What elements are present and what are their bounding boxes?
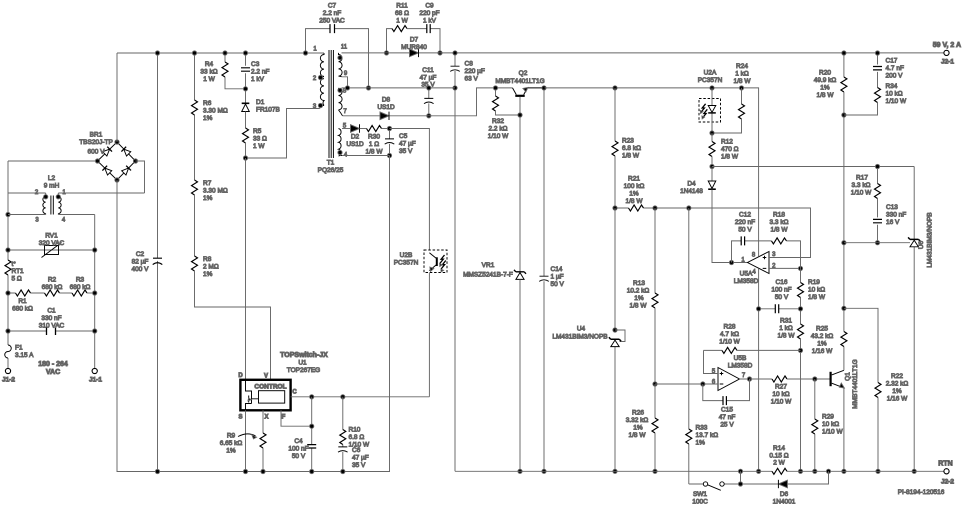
terminal J1-2 <box>5 368 10 373</box>
diode D2 <box>342 128 351 130</box>
svg-text:1 kΩ: 1 kΩ <box>735 71 749 78</box>
svg-text:470 Ω: 470 Ω <box>721 146 739 153</box>
svg-text:U4: U4 <box>577 326 586 333</box>
svg-text:50 V: 50 V <box>775 294 789 301</box>
svg-text:D2: D2 <box>351 134 360 141</box>
svg-text:R1: R1 <box>18 298 27 305</box>
bridge rectifier BR1 <box>98 142 136 180</box>
resistor R1 <box>8 292 45 294</box>
svg-text:Q2: Q2 <box>519 70 528 77</box>
svg-text:3.30 MΩ: 3.30 MΩ <box>203 188 228 195</box>
svg-text:R4: R4 <box>205 61 214 68</box>
svg-text:LM431BIM3/NOPB: LM431BIM3/NOPB <box>552 334 607 341</box>
op-amp U5B <box>718 368 740 391</box>
wire secondary RTN rail <box>455 470 944 472</box>
svg-text:R5: R5 <box>253 128 262 135</box>
svg-text:D6: D6 <box>780 491 789 498</box>
svg-text:C15: C15 <box>721 407 733 414</box>
svg-text:43.2 kΩ: 43.2 kΩ <box>811 333 834 340</box>
svg-text:1 W: 1 W <box>253 143 265 150</box>
wire bridge DC+ to top rail <box>116 53 118 142</box>
svg-text:400 V: 400 V <box>132 266 150 273</box>
resistor R10 <box>342 397 344 430</box>
svg-text:X: X <box>264 415 268 421</box>
switch SW1 <box>689 483 741 485</box>
wire bias to opto collector <box>390 129 430 251</box>
svg-text:R25: R25 <box>816 326 828 333</box>
wire SW1/D6 bypass <box>741 471 829 484</box>
svg-text:1%: 1% <box>203 271 213 278</box>
diode D6 <box>778 480 787 488</box>
svg-text:1 kV: 1 kV <box>251 76 265 83</box>
svg-text:C5: C5 <box>399 133 408 140</box>
svg-text:C6: C6 <box>352 447 361 454</box>
wire drain line D <box>245 158 247 380</box>
svg-text:R23: R23 <box>622 138 634 145</box>
resistor R33 <box>688 208 690 429</box>
svg-text:R11: R11 <box>396 3 408 10</box>
svg-text:33 Ω: 33 Ω <box>253 136 267 143</box>
capacitor C1 <box>8 330 95 332</box>
resistor R23 <box>614 88 616 141</box>
svg-text:T1: T1 <box>327 160 335 167</box>
svg-text:D: D <box>238 373 243 379</box>
svg-text:C17: C17 <box>886 58 898 65</box>
capacitor C12 <box>732 241 772 263</box>
svg-text:1 kΩ: 1 kΩ <box>779 325 793 332</box>
svg-text:R21: R21 <box>628 176 640 183</box>
svg-text:R22: R22 <box>891 373 903 380</box>
svg-text:1/10 W: 1/10 W <box>886 98 907 105</box>
svg-text:1%: 1% <box>629 191 639 198</box>
svg-text:1%: 1% <box>696 440 706 447</box>
svg-text:3.3 kΩ: 3.3 kΩ <box>770 219 789 226</box>
diode D8 <box>380 112 389 120</box>
resistor R24 <box>741 88 743 104</box>
svg-text:1/8 W: 1/8 W <box>630 303 648 310</box>
svg-text:RT1: RT1 <box>12 268 25 275</box>
diode D4 <box>711 167 713 181</box>
svg-text:U5A: U5A <box>740 271 753 278</box>
svg-text:TOP267EG: TOP267EG <box>287 367 320 374</box>
capacitor C16 <box>759 308 801 310</box>
svg-text:R18: R18 <box>773 212 785 219</box>
svg-text:11: 11 <box>341 45 348 51</box>
svg-text:10 kΩ: 10 kΩ <box>822 421 839 428</box>
svg-text:R20: R20 <box>819 70 831 77</box>
wire C pin line <box>291 396 430 398</box>
resistor R13 <box>654 208 656 293</box>
svg-text:220 pF: 220 pF <box>419 10 439 17</box>
svg-text:2.2 kΩ: 2.2 kΩ <box>489 126 508 133</box>
varistor RV1 <box>8 249 95 251</box>
svg-text:5 Ω: 5 Ω <box>12 276 22 283</box>
svg-text:250 VAC: 250 VAC <box>319 18 345 25</box>
svg-text:R12: R12 <box>721 139 733 146</box>
resistor R8 <box>192 256 198 271</box>
capacitor C3 <box>245 53 247 103</box>
svg-text:0.15 Ω: 0.15 Ω <box>769 453 788 460</box>
svg-text:35 V: 35 V <box>352 462 366 469</box>
diode D7 <box>410 49 419 57</box>
svg-text:R8: R8 <box>203 256 212 263</box>
TOPSwitch U1 block <box>240 380 290 411</box>
svg-text:6.8 Ω: 6.8 Ω <box>349 434 365 441</box>
svg-text:R7: R7 <box>203 180 212 187</box>
svg-text:82 µF: 82 µF <box>132 259 149 266</box>
svg-text:1 Ω: 1 Ω <box>369 141 379 148</box>
resistor R22 <box>844 308 878 382</box>
svg-text:1/8 W: 1/8 W <box>808 294 826 301</box>
resistor R11 <box>387 29 393 53</box>
svg-text:U2A: U2A <box>704 70 717 77</box>
svg-text:680 kΩ: 680 kΩ <box>70 284 91 291</box>
svg-text:1/10 W: 1/10 W <box>822 429 843 436</box>
T1 secondary winding 5-4 <box>339 129 343 157</box>
svg-text:D7: D7 <box>410 37 419 44</box>
svg-text:1/8 W: 1/8 W <box>721 154 739 161</box>
svg-text:MMBT4401LT1G: MMBT4401LT1G <box>495 78 544 85</box>
svg-text:220 µF: 220 µF <box>465 68 485 75</box>
capacitor C11 <box>428 88 430 116</box>
svg-text:SW1: SW1 <box>693 491 707 498</box>
svg-text:CONTROL: CONTROL <box>254 384 286 391</box>
svg-text:MUR840: MUR840 <box>401 44 427 51</box>
svg-text:50 V: 50 V <box>738 227 752 234</box>
resistor R7 <box>192 180 198 195</box>
junction dots AC network <box>6 212 10 216</box>
wire X pin down <box>262 410 264 471</box>
svg-text:25 V: 25 V <box>720 422 734 429</box>
capacitor C15 <box>703 379 750 401</box>
svg-text:R33: R33 <box>696 425 708 432</box>
svg-text:VAC: VAC <box>46 369 60 376</box>
wire clamp return to transformer pin 3 <box>246 107 321 159</box>
svg-text:1N4001: 1N4001 <box>773 499 796 505</box>
svg-text:100 nF: 100 nF <box>288 446 308 453</box>
resistor R19 <box>800 268 802 282</box>
fuse F1 <box>5 345 11 358</box>
svg-text:J2-1: J2-1 <box>941 59 954 66</box>
svg-text:LM358D: LM358D <box>728 363 753 370</box>
svg-text:RV1: RV1 <box>45 233 58 240</box>
svg-text:10 kΩ: 10 kΩ <box>886 91 903 98</box>
svg-text:1%: 1% <box>633 425 643 432</box>
svg-text:R19: R19 <box>808 279 820 286</box>
resistor R6 <box>194 53 196 180</box>
svg-text:100 kΩ: 100 kΩ <box>624 183 645 190</box>
wire bias rail (Q2 emitter) <box>545 88 759 256</box>
svg-text:220 nF: 220 nF <box>735 219 755 226</box>
wire pin7 bias line <box>343 88 513 116</box>
svg-text:2.2 nF: 2.2 nF <box>323 10 341 17</box>
terminal J2-2 RTN <box>944 469 949 474</box>
svg-text:1/10 W: 1/10 W <box>851 190 872 197</box>
T1 secondary winding 8-7 <box>339 88 343 116</box>
svg-text:PQ26/25: PQ26/25 <box>318 167 344 174</box>
wire opto emitter to C pin line <box>428 273 430 397</box>
svg-text:1%: 1% <box>203 195 213 202</box>
svg-text:1/10 W: 1/10 W <box>771 399 792 406</box>
svg-text:1/8 W: 1/8 W <box>771 227 789 234</box>
resistor R26 <box>653 382 657 386</box>
svg-text:R17: R17 <box>856 175 868 182</box>
svg-text:3.32 kΩ: 3.32 kΩ <box>626 417 649 424</box>
capacitor C17 <box>877 53 879 88</box>
T1 core <box>329 50 333 158</box>
resistor R34 <box>875 88 881 103</box>
svg-text:2 W: 2 W <box>773 460 785 467</box>
svg-text:PI-8194-120516: PI-8194-120516 <box>898 489 945 496</box>
svg-text:1/16 W: 1/16 W <box>812 348 833 355</box>
resistor R32 <box>495 88 497 96</box>
svg-text:R6: R6 <box>203 100 212 107</box>
svg-text:R32: R32 <box>492 118 504 125</box>
svg-text:1/8 W: 1/8 W <box>734 78 752 85</box>
resistor R20 <box>843 53 845 77</box>
svg-text:t°: t° <box>12 260 17 268</box>
svg-text:J1-2: J1-2 <box>2 377 15 384</box>
svg-text:C2: C2 <box>136 251 145 258</box>
svg-text:PC357N: PC357N <box>698 77 723 84</box>
svg-text:D8: D8 <box>382 97 391 104</box>
svg-text:C13: C13 <box>886 204 898 211</box>
svg-text:1/10 W: 1/10 W <box>488 133 509 140</box>
shunt reg U4 <box>614 208 616 471</box>
svg-text:VR1: VR1 <box>482 262 495 269</box>
wire bridge DC- down / primary ground rail <box>117 180 390 472</box>
svg-text:PC357N: PC357N <box>394 260 419 267</box>
svg-text:1%: 1% <box>892 388 902 395</box>
svg-text:R30: R30 <box>368 134 380 141</box>
resistor R17 <box>877 167 879 184</box>
resistor R31 <box>798 324 804 339</box>
resistor R30 <box>360 128 367 130</box>
T1 secondary winding 11-9 <box>339 53 343 77</box>
svg-text:J1-1: J1-1 <box>89 377 102 384</box>
resistor R29 <box>814 379 816 419</box>
svg-text:68 Ω: 68 Ω <box>395 10 409 17</box>
svg-text:C14: C14 <box>551 266 563 273</box>
svg-text:10.2 kΩ: 10.2 kΩ <box>627 288 650 295</box>
svg-text:35 V: 35 V <box>399 148 413 155</box>
svg-text:47 µF: 47 µF <box>420 75 437 82</box>
resistor R3 <box>72 290 87 296</box>
wire bias tap line (9/8 junction) <box>342 77 456 88</box>
svg-text:1%: 1% <box>817 341 827 348</box>
svg-text:R13: R13 <box>633 280 645 287</box>
capacitor C4 <box>311 397 313 472</box>
svg-text:D4: D4 <box>687 181 696 188</box>
svg-text:C1: C1 <box>47 308 56 315</box>
svg-text:47 µF: 47 µF <box>352 455 369 462</box>
svg-text:U1: U1 <box>298 360 307 367</box>
svg-text:LM358D: LM358D <box>734 278 759 285</box>
svg-text:US1D: US1D <box>346 141 364 148</box>
svg-text:6.8 kΩ: 6.8 kΩ <box>622 145 641 152</box>
diode D1 <box>242 103 250 111</box>
wire secondary output rail <box>342 52 945 54</box>
svg-text:4.7 kΩ: 4.7 kΩ <box>720 331 739 338</box>
svg-text:MMBT4401LT1G: MMBT4401LT1G <box>852 359 859 408</box>
resistor R12 <box>711 133 713 142</box>
capacitor C8 <box>454 53 456 471</box>
resistor R4 <box>225 53 246 89</box>
svg-text:680 kΩ: 680 kΩ <box>12 306 33 313</box>
capacitor C2 <box>157 53 159 472</box>
thermistor RT1 <box>5 260 11 275</box>
wire feedback node line <box>615 208 811 258</box>
svg-text:3.30 MΩ: 3.30 MΩ <box>203 108 228 115</box>
terminal J1-1 <box>92 368 97 373</box>
svg-text:47 nF: 47 nF <box>719 414 736 421</box>
svg-text:1/8 W: 1/8 W <box>622 153 640 160</box>
svg-text:35 V: 35 V <box>421 82 435 89</box>
svg-text:1 W: 1 W <box>396 18 408 25</box>
resistor R18 <box>772 238 787 244</box>
svg-text:2 MΩ: 2 MΩ <box>203 264 219 271</box>
svg-text:1/8 W: 1/8 W <box>629 432 647 439</box>
svg-text:3.3 kΩ: 3.3 kΩ <box>852 182 871 189</box>
svg-text:S: S <box>238 415 242 421</box>
U1 internal MOSFET <box>246 380 259 411</box>
svg-text:1/16 W: 1/16 W <box>887 396 908 403</box>
resistor R25 <box>843 243 845 332</box>
svg-text:V: V <box>264 374 268 380</box>
svg-text:1%: 1% <box>203 115 213 122</box>
resistor R21 <box>629 205 644 211</box>
wire S pin to ground <box>245 410 247 471</box>
inductor L2 (common-mode choke) <box>8 193 145 215</box>
svg-text:C11: C11 <box>422 67 434 74</box>
svg-text:U5B: U5B <box>734 355 747 362</box>
svg-text:F1: F1 <box>15 345 23 352</box>
terminal J2-1 output <box>944 50 949 55</box>
svg-text:1/8 W: 1/8 W <box>366 149 384 156</box>
svg-text:1 W: 1 W <box>203 76 215 83</box>
capacitor C14 <box>543 88 545 471</box>
svg-text:C3: C3 <box>251 61 260 68</box>
svg-text:C9: C9 <box>425 3 434 10</box>
svg-text:C12: C12 <box>739 212 751 219</box>
capacitor C9 <box>407 29 440 53</box>
svg-text:1/8 W: 1/8 W <box>778 333 796 340</box>
op-amp U5A <box>748 252 770 274</box>
svg-text:1/8 W: 1/8 W <box>626 198 644 205</box>
svg-text:13.7 kΩ: 13.7 kΩ <box>696 432 719 439</box>
svg-text:47 µF: 47 µF <box>399 141 416 148</box>
svg-text:R27: R27 <box>775 384 787 391</box>
svg-text:1 kV: 1 kV <box>423 18 437 25</box>
wire AC right rail (J1-1 up) <box>94 215 96 369</box>
wire bridge right corner to L2 pin 1 <box>136 161 145 193</box>
T1 primary winding <box>320 53 324 106</box>
svg-text:100 nF: 100 nF <box>771 287 791 294</box>
svg-text:680 kΩ: 680 kΩ <box>42 284 63 291</box>
wire U5A pin4 down <box>758 269 760 472</box>
svg-text:BR1: BR1 <box>90 132 103 139</box>
svg-text:3.15 A: 3.15 A <box>15 352 34 359</box>
svg-text:330 nF: 330 nF <box>41 315 61 322</box>
svg-text:10 kΩ: 10 kΩ <box>772 391 789 398</box>
svg-text:R9: R9 <box>227 433 236 440</box>
resistor R28 <box>704 349 723 351</box>
svg-text:50 V: 50 V <box>551 281 565 288</box>
svg-text:1/10 W: 1/10 W <box>719 339 740 346</box>
svg-text:J2-2: J2-2 <box>941 479 954 486</box>
resistor R5 <box>243 128 249 143</box>
svg-text:TOPSwitch-JX: TOPSwitch-JX <box>280 352 328 359</box>
wire F pin <box>281 410 312 426</box>
svg-text:R14: R14 <box>773 445 785 452</box>
svg-text:310 VAC: 310 VAC <box>39 323 65 330</box>
svg-text:R28: R28 <box>724 324 736 331</box>
optocoupler U2B <box>424 250 447 273</box>
svg-text:1%: 1% <box>226 448 236 455</box>
svg-text:FR107B: FR107B <box>256 107 280 114</box>
svg-text:600 V: 600 V <box>88 149 106 156</box>
svg-text:R3: R3 <box>76 277 85 284</box>
capacitor C7 <box>306 29 369 88</box>
svg-text:R29: R29 <box>822 414 834 421</box>
resistor R2 <box>45 290 60 296</box>
transistor Q2 <box>515 95 524 97</box>
svg-text:9 mH: 9 mH <box>44 183 60 190</box>
svg-text:33 kΩ: 33 kΩ <box>200 69 217 76</box>
svg-text:59 V, 2 A: 59 V, 2 A <box>933 42 961 49</box>
svg-text:C: C <box>292 390 297 396</box>
svg-text:10 kΩ: 10 kΩ <box>808 287 825 294</box>
svg-text:R2: R2 <box>48 277 57 284</box>
wire primary top rail <box>117 52 324 54</box>
svg-text:4.7 nF: 4.7 nF <box>886 65 904 72</box>
svg-text:C16: C16 <box>776 279 788 286</box>
svg-text:330 nF: 330 nF <box>886 212 906 219</box>
resistor R9 (X pin) <box>260 433 266 448</box>
svg-text:200 V: 200 V <box>886 73 904 80</box>
svg-text:R34: R34 <box>886 83 898 90</box>
svg-text:1/8 W: 1/8 W <box>817 92 835 99</box>
svg-text:RTN: RTN <box>938 461 952 468</box>
svg-text:100C: 100C <box>692 499 708 505</box>
svg-text:1%: 1% <box>634 295 644 302</box>
svg-text:320 VAC: 320 VAC <box>39 240 65 247</box>
svg-text:C7: C7 <box>328 3 337 10</box>
svg-text:1N4148: 1N4148 <box>680 188 703 195</box>
svg-text:U2B: U2B <box>400 252 413 259</box>
svg-text:R31: R31 <box>780 318 792 325</box>
svg-text:1%: 1% <box>820 85 830 92</box>
wire R12/D4 node line to right <box>712 166 914 168</box>
svg-text:49.9 kΩ: 49.9 kΩ <box>814 77 837 84</box>
svg-text:2.2 nF: 2.2 nF <box>251 69 269 76</box>
svg-text:R24: R24 <box>736 63 748 70</box>
svg-text:LM431BIM3/NOPB: LM431BIM3/NOPB <box>927 212 934 267</box>
capacitor C13 <box>873 219 882 222</box>
wire pin4 to primary ground <box>342 156 390 472</box>
svg-text:C4: C4 <box>294 438 303 445</box>
svg-text:1 µF: 1 µF <box>551 274 564 281</box>
svg-text:US1D: US1D <box>377 104 395 111</box>
zener VR1 <box>514 270 526 274</box>
svg-text:2.32 kΩ: 2.32 kΩ <box>886 381 909 388</box>
svg-text:R10: R10 <box>349 427 361 434</box>
optocoupler U2A <box>699 99 721 123</box>
wire R8 to V pin <box>195 271 271 380</box>
wire AC left rail (J1-2 to bridge) <box>8 161 98 368</box>
svg-text:C8: C8 <box>465 61 474 68</box>
resistor R14 (current sense) <box>772 468 787 474</box>
